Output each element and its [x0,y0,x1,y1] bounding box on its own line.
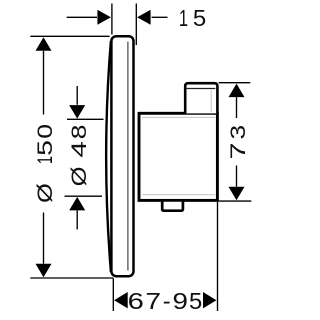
svg-text:0: 0 [33,124,57,139]
svg-text:1: 1 [32,156,57,164]
svg-text:7: 7 [226,142,250,159]
svg-text:Ø: Ø [33,183,57,203]
svg-text:4: 4 [68,141,91,157]
svg-text:1: 1 [179,6,188,31]
svg-text:8: 8 [67,125,91,140]
svg-text:-: - [163,288,171,314]
svg-text:3: 3 [226,125,250,140]
svg-text:7: 7 [145,289,161,314]
svg-text:5: 5 [189,289,202,315]
svg-text:9: 9 [173,289,188,315]
svg-text:5: 5 [33,140,57,156]
svg-text:5: 5 [193,6,206,32]
svg-text:Ø: Ø [68,166,92,186]
svg-text:6: 6 [128,288,144,315]
